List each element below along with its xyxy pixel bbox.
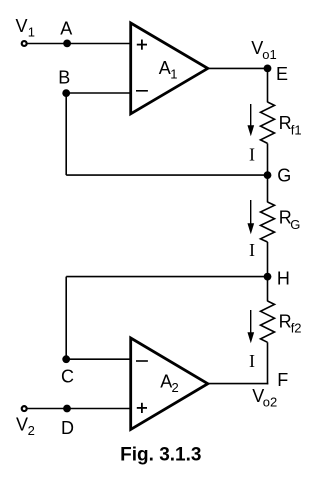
label RG [279, 207, 301, 232]
svg-text:o2: o2 [263, 395, 277, 410]
wire down from H rail to node C [65, 277, 67, 360]
label Vo2 [252, 386, 277, 410]
wire resistor Rf1 to node G [267, 143, 269, 175]
node G [264, 171, 272, 179]
svg-text:f1: f1 [291, 123, 302, 138]
svg-text:R: R [279, 113, 292, 133]
svg-text:C: C [61, 367, 74, 387]
resistor Rf2 [261, 301, 275, 342]
svg-text:I: I [249, 351, 255, 371]
wire op-amp A2 output to corner F [208, 383, 268, 385]
op-amp A2 plus sign (non-inverting input marker) [137, 403, 147, 413]
svg-text:H: H [277, 269, 290, 289]
svg-text:1: 1 [170, 67, 177, 82]
terminal V2 open circle [22, 406, 27, 411]
wire node B down to feedback rail toward node G [65, 93, 67, 175]
wire V2 terminal to op-amp A2 non-inverting input (node D rail) [27, 408, 131, 410]
wire node E to resistor Rf1 [267, 68, 269, 102]
svg-text:A: A [60, 19, 72, 39]
svg-text:2: 2 [28, 423, 35, 438]
op-amp A1 [131, 23, 208, 114]
op-amp A2 minus sign (inverting input marker) [136, 360, 148, 362]
label A2 [160, 372, 178, 396]
label V1 [16, 16, 36, 40]
label Vo1 [251, 38, 277, 62]
svg-text:A: A [159, 58, 171, 78]
wire op-amp A1 output to node E [208, 67, 268, 69]
svg-text:1: 1 [28, 25, 35, 40]
current arrow I through RG [247, 200, 254, 234]
node E [264, 65, 272, 73]
label Rf1 [279, 113, 302, 137]
resistor RG [261, 202, 275, 242]
node H [264, 273, 272, 281]
node A [63, 40, 71, 48]
current arrow I through Rf1 [247, 104, 254, 136]
svg-text:V: V [16, 16, 28, 36]
wire node C to op-amp A2 inverting input [66, 358, 131, 360]
svg-text:D: D [61, 418, 74, 438]
wire node B to op-amp A1 inverting input [66, 92, 131, 94]
svg-text:F: F [277, 370, 288, 390]
svg-text:o1: o1 [262, 47, 276, 62]
svg-text:2: 2 [172, 380, 179, 395]
node D [63, 405, 71, 413]
svg-text:G: G [277, 166, 291, 186]
op-amp A2 [131, 338, 208, 429]
svg-text:V: V [16, 414, 28, 434]
svg-text:I: I [249, 240, 255, 260]
svg-text:G: G [290, 217, 300, 232]
label A1 [159, 58, 178, 81]
svg-text:R: R [279, 312, 292, 332]
svg-text:A: A [160, 372, 172, 392]
wire node G to resistor RG [267, 175, 269, 202]
wire V1 terminal to op-amp A1 non-inverting input (node A rail) [27, 43, 131, 45]
feedback wire from node G rail to node B branch [66, 174, 267, 176]
wire resistor RG to node H [267, 242, 269, 277]
current arrow I through Rf2 [247, 310, 254, 343]
wire resistor Rf2 to corner F [267, 342, 269, 384]
node C [62, 355, 70, 363]
wire node H rail to node C branch [66, 276, 267, 278]
svg-text:Fig. 3.1.3: Fig. 3.1.3 [120, 445, 201, 466]
op-amp A1 plus sign (non-inverting input marker) [137, 40, 147, 50]
svg-text:I: I [249, 144, 255, 164]
op-amp A1 minus sign (inverting input marker) [136, 90, 148, 92]
terminal V1 open circle [22, 41, 27, 46]
svg-text:B: B [58, 67, 70, 87]
svg-text:f2: f2 [291, 321, 302, 336]
label Rf2 [279, 312, 302, 336]
label V2 [16, 414, 35, 438]
svg-text:E: E [276, 64, 288, 84]
wire node H to resistor Rf2 [267, 277, 269, 302]
resistor Rf1 [261, 102, 275, 143]
node B [62, 89, 70, 97]
